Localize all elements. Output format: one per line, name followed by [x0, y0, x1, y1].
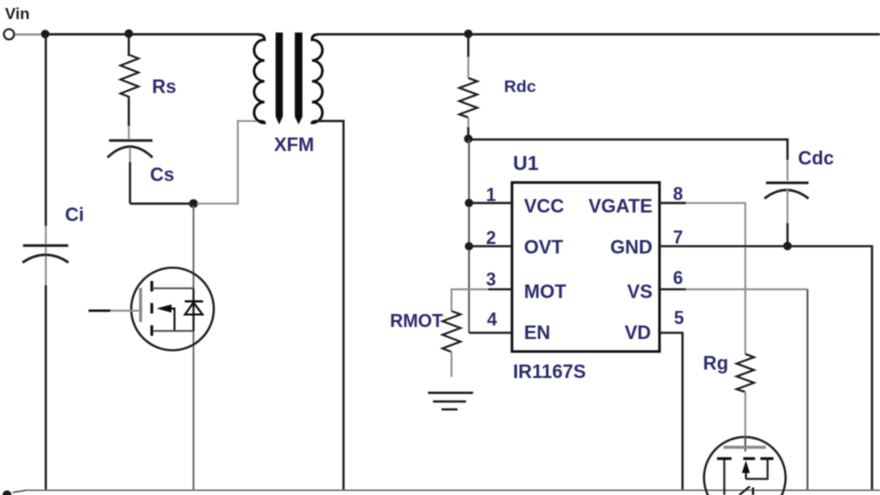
svg-text:RMOT: RMOT [390, 311, 443, 331]
terminal Vin [4, 29, 14, 39]
svg-text:VGATE: VGATE [588, 197, 652, 218]
wire VCC vertical [468, 140, 470, 333]
junction Cdc GND [783, 242, 792, 251]
svg-text:IR1167S: IR1167S [513, 362, 586, 383]
Q1 body diode [185, 300, 203, 302]
svg-text:VS: VS [627, 282, 652, 303]
capacitor Ci [23, 246, 69, 263]
junction pin2 [465, 242, 473, 250]
svg-text:2: 2 [486, 228, 496, 248]
svg-text:GND: GND [610, 238, 652, 259]
wire top rail secondary [317, 33, 880, 35]
Q1 source internal [153, 330, 194, 332]
svg-text:Rdc: Rdc [504, 77, 536, 96]
svg-text:VCC: VCC [524, 197, 564, 218]
svg-text:U1: U1 [513, 153, 539, 175]
svg-text:Cs: Cs [150, 165, 174, 186]
Q2 body diode partial [739, 486, 750, 495]
wire source lower [193, 331, 195, 491]
wire [15, 34, 42, 36]
svg-text:OVT: OVT [524, 238, 563, 259]
capacitor Cdc [765, 160, 809, 246]
Q2 gate bar [724, 446, 767, 449]
resistor RMOT [443, 311, 461, 377]
transformer XFM primary winding [254, 35, 264, 123]
wire Ci bottom to rail [45, 285, 47, 491]
wire drain upper [193, 206, 195, 288]
transistor Q1 [89, 206, 214, 491]
svg-text:Rs: Rs [152, 77, 176, 98]
svg-text:XFM: XFM [274, 135, 314, 156]
Q2 gate lead [744, 436, 746, 452]
wire Ci branch upper [45, 34, 47, 226]
pin 7 stub and GND wire [660, 246, 873, 490]
junction Rdc top [464, 30, 473, 39]
Q1 internal vertical [192, 288, 194, 331]
transformer core bar right [295, 33, 303, 125]
Q1 body arrow [157, 304, 172, 312]
pin 6 stub [660, 288, 687, 290]
pin 5 stub and VD wire [660, 333, 683, 491]
svg-text:1: 1 [486, 185, 496, 205]
wire Ci lead [45, 226, 47, 285]
svg-text:3: 3 [486, 270, 496, 290]
junction VCC node [464, 135, 473, 144]
capacitor Cs [108, 141, 153, 204]
pin 8 stub [660, 202, 687, 204]
svg-text:EN: EN [524, 323, 550, 344]
svg-text:4: 4 [487, 310, 497, 330]
transistor Q2 [704, 436, 786, 495]
junction Rs top [125, 29, 134, 38]
resistor Rdc [459, 34, 477, 139]
wire secondary bottom [317, 121, 344, 491]
pin 3 stub [488, 288, 512, 290]
svg-text:5: 5 [674, 308, 684, 328]
Q2 channel dashes [717, 457, 732, 460]
svg-text:Vin: Vin [5, 6, 30, 23]
wire VCC to Cdc [468, 140, 787, 161]
svg-text:7: 7 [673, 227, 683, 247]
pin 1 stub [469, 202, 512, 204]
wire VGATE [686, 203, 745, 354]
Q1 channel dashes [150, 281, 153, 292]
resistor Rg [737, 354, 754, 446]
wire pin3 to RMOT [452, 289, 489, 311]
wire bottom rail [13, 490, 880, 492]
svg-text:Rg: Rg [703, 354, 728, 375]
pin 4 stub [469, 332, 512, 334]
svg-text:Ci: Ci [65, 205, 84, 226]
wire VS [686, 288, 808, 290]
terminal bottom left [2, 490, 11, 495]
transformer XFM secondary winding [312, 35, 322, 123]
Q2 drain internal [723, 460, 725, 495]
Q1 drain internal [153, 287, 194, 289]
ground [428, 393, 473, 410]
IC U1 body [512, 183, 660, 352]
junction input node [41, 30, 50, 39]
pin 2 stub [469, 245, 512, 247]
svg-text:Cdc: Cdc [798, 149, 834, 170]
Q1 gate bar [139, 288, 142, 322]
junction drain node [189, 199, 198, 208]
svg-text:8: 8 [673, 184, 683, 204]
wire Cs bottom [130, 203, 190, 205]
Q1 gate stub [89, 310, 111, 312]
transformer core bar left [276, 33, 283, 125]
wire drain node to primary return [197, 121, 259, 204]
Q1 body circle [131, 268, 214, 351]
svg-text:MOT: MOT [524, 282, 567, 303]
Q2 body arrow [742, 461, 750, 474]
Q2 body circle [704, 437, 786, 495]
svg-text:6: 6 [673, 268, 683, 288]
svg-text:VD: VD [625, 323, 651, 344]
junction pin1 [465, 199, 473, 207]
wire top rail primary [45, 33, 259, 35]
Q2 source internal [746, 460, 768, 479]
resistor Rs [121, 34, 139, 139]
